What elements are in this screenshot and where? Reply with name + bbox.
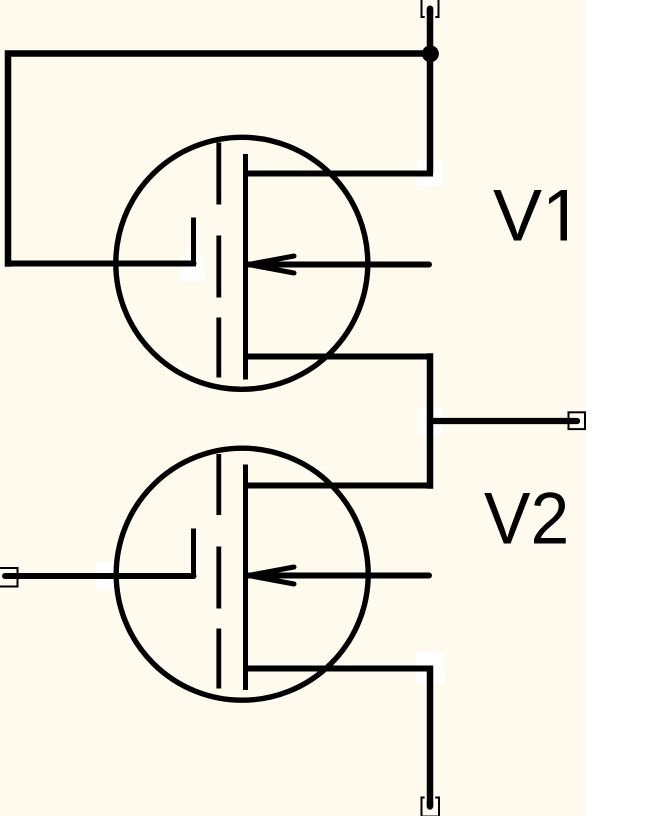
- pin highlight square at output junction: [417, 408, 443, 434]
- V1 drain lead: [246, 171, 434, 177]
- wire: top terminal to V1 drain corner (vertical, x=430): [427, 9, 434, 14]
- V2 bulk lead: [249, 573, 430, 579]
- wire: V1 gate lead: [8, 261, 194, 267]
- wire: V2 gate lead from left terminal: [5, 573, 194, 579]
- V1 source/drain/bulk bar: [243, 154, 248, 380]
- pin highlight square at bottom terminal: [425, 796, 436, 812]
- pin highlight square at output terminal: [576, 417, 582, 426]
- V1 channel (dashed): [216, 143, 221, 378]
- V2 gate electrode: [191, 529, 196, 578]
- V2 bulk arrow (points left): [249, 567, 295, 584]
- terminal square (bottom port): [422, 798, 440, 816]
- junction dot at top node: [422, 45, 439, 62]
- pin highlight square at left terminal: [3, 573, 10, 582]
- V2 channel (dashed): [216, 454, 221, 689]
- pin highlight square at V1 drain corner: [417, 160, 443, 186]
- pin highlight square at top terminal: [425, 3, 436, 20]
- pin highlight square at V2 source corner: [416, 652, 445, 684]
- V1 gate electrode: [191, 218, 196, 267]
- V2 source lead: [246, 666, 434, 672]
- transistor V2 (MOSFET): [116, 448, 433, 700]
- svg-text:V2: V2: [484, 477, 569, 560]
- wire: V1 source corner down to V2 drain corner (vertical, x=430): [427, 353, 434, 488]
- terminal square (right output port): [569, 412, 586, 429]
- svg-text:V1: V1: [493, 174, 583, 257]
- pin highlight square at V1 gate electrode: [180, 255, 205, 281]
- V1 envelope circle: [116, 137, 368, 389]
- terminal square (left input port): [0, 568, 18, 587]
- V1 bulk arrow (points left): [249, 256, 295, 273]
- transistor V1 (MOSFET): [116, 137, 433, 389]
- V2 envelope circle: [116, 448, 368, 700]
- terminal square (top supply port): [422, 0, 439, 17]
- V2 drain lead: [246, 483, 434, 489]
- pin highlight square at V2 gate circle crossing: [96, 562, 120, 590]
- V1 source lead: [246, 354, 434, 360]
- V1 bulk lead: [249, 262, 430, 268]
- V2 source/drain/bulk bar: [243, 465, 248, 691]
- wire: output branch to right terminal: [430, 418, 577, 424]
- wire: top horizontal (junction to top-left corner): [8, 54, 430, 267]
- wire: V2 source corner down to bottom terminal: [427, 666, 434, 807]
